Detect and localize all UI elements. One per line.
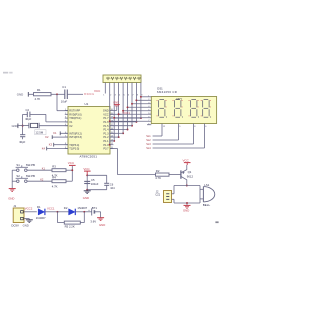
svg-text:C1: C1 xyxy=(62,85,66,89)
transistor Q1 9012 xyxy=(180,170,182,178)
svg-text:VCC: VCC xyxy=(94,89,101,93)
wire xyxy=(110,144,111,146)
wire xyxy=(110,136,119,138)
wire J2 pins xyxy=(172,193,175,195)
junction xyxy=(122,132,124,134)
svg-text:C2: C2 xyxy=(26,108,30,112)
junction xyxy=(135,121,137,123)
resistor network RP1 xyxy=(103,75,141,83)
svg-text:6: 6 xyxy=(128,94,130,96)
svg-text:100uF: 100uF xyxy=(91,182,99,186)
wire xyxy=(45,211,57,213)
svg-text:3.6V: 3.6V xyxy=(90,219,96,223)
svg-text:P1.0: P1.0 xyxy=(103,143,109,147)
svg-text:7: 7 xyxy=(132,94,134,96)
svg-text:VCC: VCC xyxy=(68,161,75,165)
svg-text:6: 6 xyxy=(205,126,207,128)
svg-text:P1.2: P1.2 xyxy=(103,135,109,139)
svg-text:K1: K1 xyxy=(42,167,46,171)
wire RP1 pin 2 bus xyxy=(109,83,111,145)
resistor R3 xyxy=(52,169,66,172)
display segment pin 7 xyxy=(110,120,152,122)
svg-text:10uF: 10uF xyxy=(61,100,68,104)
svg-text:9: 9 xyxy=(179,126,181,128)
pin 2 RXD(P3.0) xyxy=(65,113,68,115)
gnd rail for crystal xyxy=(22,114,24,134)
svg-text:J1: J1 xyxy=(13,204,16,208)
wire loop right xyxy=(199,186,201,204)
junction xyxy=(109,144,111,146)
svg-text:GND: GND xyxy=(8,196,14,200)
diode D1 1N4007 xyxy=(38,209,44,215)
svg-text:GND: GND xyxy=(17,92,23,96)
junction collector node xyxy=(186,185,188,187)
display segment pin 4 xyxy=(128,106,152,108)
svg-text:AT89C2051: AT89C2051 xyxy=(80,155,98,159)
corner mark xyxy=(215,221,218,223)
pin 5 X1 xyxy=(65,121,68,123)
junction xyxy=(83,211,85,213)
display segment pin 3 xyxy=(132,103,151,105)
pin 1 RST/VPP xyxy=(65,110,68,112)
wire xyxy=(24,211,37,213)
svg-text:S1: S1 xyxy=(16,163,20,167)
pin 12 P1.0 xyxy=(110,144,113,146)
wire X1 pin xyxy=(46,121,68,123)
display common pin 9 net SL2 xyxy=(178,124,180,141)
display common pin 6 net SL4 xyxy=(204,124,206,149)
wire xyxy=(110,117,141,119)
capacitor C1 xyxy=(64,90,66,100)
svg-text:SL1: SL1 xyxy=(146,135,151,138)
svg-text:2: 2 xyxy=(110,94,112,96)
crystal value 12.5M xyxy=(35,130,46,135)
svg-text:12.5M: 12.5M xyxy=(35,131,43,135)
svg-text:SL4: SL4 xyxy=(146,147,151,150)
svg-text:K1: K1 xyxy=(53,131,57,135)
svg-text:GND: GND xyxy=(23,224,29,228)
svg-text:9: 9 xyxy=(141,94,143,96)
svg-text:P1.1: P1.1 xyxy=(103,139,109,143)
pin 7 INT1(P3.3) xyxy=(65,136,68,138)
svg-text:VCC1: VCC1 xyxy=(47,207,55,211)
svg-text:8: 8 xyxy=(194,126,196,128)
ground GND (battery) xyxy=(97,217,104,219)
svg-text:U1: U1 xyxy=(85,102,89,106)
svg-text:30pF: 30pF xyxy=(25,117,31,121)
svg-text:GND: GND xyxy=(183,208,189,212)
wire xyxy=(51,93,65,95)
junction xyxy=(122,110,124,112)
svg-text:K2: K2 xyxy=(40,178,44,182)
pin 13 P1.1 xyxy=(110,140,113,142)
display segment pin 2 xyxy=(136,99,151,101)
junction xyxy=(127,129,129,131)
resistor R1 xyxy=(34,93,52,96)
wire xyxy=(110,132,123,134)
wire RP1 pin 5 bus xyxy=(122,83,124,134)
pin 8 T0(P3.4) xyxy=(65,144,68,146)
junction xyxy=(113,140,115,142)
svg-text:12: 12 xyxy=(163,126,166,128)
display common pin 12 net SL1 xyxy=(161,124,163,137)
wire X2 pin xyxy=(39,125,68,127)
ground GND (switches) xyxy=(9,188,16,190)
svg-text:4.7K: 4.7K xyxy=(155,176,161,180)
ground GND (input) xyxy=(26,219,33,221)
svg-text:DC9V: DC9V xyxy=(11,224,19,228)
wire RP1 pin 4 bus xyxy=(118,83,120,138)
svg-text:5: 5 xyxy=(124,94,126,96)
svg-text:RXD(P3.0): RXD(P3.0) xyxy=(69,112,81,116)
svg-text:P1.7: P1.7 xyxy=(103,116,109,120)
svg-text:K2: K2 xyxy=(45,135,49,139)
wire VCC pin xyxy=(110,113,122,115)
svg-text:DPY: DPY xyxy=(177,97,183,101)
battery BT1 3.6V xyxy=(91,208,93,215)
svg-text:9012: 9012 xyxy=(187,174,194,178)
capacitor C6 104 xyxy=(104,182,109,184)
svg-text:P1.3: P1.3 xyxy=(103,131,109,135)
svg-text:P1.6: P1.6 xyxy=(103,120,109,124)
svg-text:C5: C5 xyxy=(91,178,95,182)
svg-text:GND: GND xyxy=(99,223,105,227)
junction xyxy=(118,113,120,115)
wire loop bottom xyxy=(174,202,200,204)
svg-text:SM41056 CR: SM41056 CR xyxy=(157,90,177,94)
svg-text:VCC: VCC xyxy=(103,112,109,116)
diode D2 1N4007 xyxy=(69,209,75,215)
svg-text:GND: GND xyxy=(12,124,18,128)
pin 17 P1.5 xyxy=(110,125,113,127)
pin 11 P3.7 xyxy=(110,148,113,150)
svg-text:4.7K: 4.7K xyxy=(35,97,41,101)
wire xyxy=(110,121,136,123)
pin 14 P1.2 xyxy=(110,136,113,138)
svg-text:4: 4 xyxy=(119,94,121,96)
junction xyxy=(131,103,133,105)
svg-text:P1.4: P1.4 xyxy=(103,128,109,132)
resistor R4 xyxy=(52,180,66,183)
display segment pin 9 xyxy=(114,117,151,119)
capacitor C2 xyxy=(23,113,27,115)
pin 19 P1.7 xyxy=(110,117,113,119)
wire RST pin xyxy=(57,110,68,112)
svg-text:8: 8 xyxy=(137,94,139,96)
wire VCC rail xyxy=(86,175,88,190)
svg-text:T0(P3.4): T0(P3.4) xyxy=(69,143,79,147)
svg-text:SW-PB: SW-PB xyxy=(26,163,35,167)
connector J2 (ext buzzer) xyxy=(164,191,172,203)
svg-text:T1(P3.5): T1(P3.5) xyxy=(69,147,79,151)
svg-text:TXD(P3.1): TXD(P3.1) xyxy=(69,116,81,120)
wire INT1 net K2 xyxy=(53,136,69,138)
wire J1 gnd xyxy=(24,218,29,220)
ground GND (buzzer) xyxy=(186,203,188,205)
junction xyxy=(118,136,120,138)
pin 10 GND xyxy=(110,110,113,112)
junction xyxy=(135,99,137,101)
wire RST down xyxy=(56,94,58,110)
svg-text:P1.5: P1.5 xyxy=(103,124,109,128)
svg-text:R4: R4 xyxy=(52,176,56,180)
svg-text:RST/VPP: RST/VPP xyxy=(69,109,80,113)
faint header text xyxy=(3,72,8,74)
wire xyxy=(58,211,69,213)
svg-text:BT1: BT1 xyxy=(92,206,98,210)
wire xyxy=(169,174,181,176)
junction xyxy=(131,125,133,127)
svg-text:VCC: VCC xyxy=(83,167,90,171)
svg-text:30pF: 30pF xyxy=(19,140,25,144)
svg-text:INT0(P3.2): INT0(P3.2) xyxy=(69,131,82,135)
svg-text:S2: S2 xyxy=(16,174,20,178)
junction xyxy=(127,106,129,108)
wire xyxy=(110,125,132,127)
svg-text:104: 104 xyxy=(110,186,115,190)
svg-text:R2: R2 xyxy=(156,169,160,173)
resistor R2 xyxy=(156,173,170,176)
svg-text:SL3: SL3 xyxy=(146,143,151,146)
junction xyxy=(57,211,59,213)
junction xyxy=(113,117,115,119)
svg-text:VCC1: VCC1 xyxy=(84,92,94,96)
wire xyxy=(29,93,34,95)
wire xyxy=(95,211,101,213)
pin 1 RP1 common VCC xyxy=(104,83,106,94)
svg-text:D1: D1 xyxy=(37,205,41,209)
svg-text:CZ1: CZ1 xyxy=(155,194,160,197)
pin 15 P1.3 xyxy=(110,132,113,134)
svg-text:SW-PB: SW-PB xyxy=(26,174,35,178)
display segment pin 6 xyxy=(147,124,151,126)
digit 1 seven-segment xyxy=(159,98,164,100)
wire INT0 net K1 xyxy=(61,132,69,134)
junction xyxy=(109,120,111,122)
ground GND (filter) xyxy=(84,190,91,192)
svg-text:VCC: VCC xyxy=(183,158,190,162)
svg-text:1: 1 xyxy=(103,94,105,96)
wire xyxy=(12,180,16,182)
pin 6 INT0(P3.2) xyxy=(65,132,68,134)
wire xyxy=(12,169,16,171)
resistor R5 (charge limit) xyxy=(57,212,59,223)
crystal Y1 xyxy=(23,125,29,127)
wire buzzer loop top xyxy=(174,185,200,187)
svg-text:GND: GND xyxy=(113,101,119,105)
svg-text:1N4007: 1N4007 xyxy=(36,216,46,220)
wire xyxy=(110,129,128,131)
junction xyxy=(140,117,142,119)
svg-text:VCC2: VCC2 xyxy=(25,207,33,211)
display segment pin 10 xyxy=(119,113,152,115)
capacitor C3 xyxy=(20,134,25,136)
svg-text:GND: GND xyxy=(103,109,109,113)
junction xyxy=(22,125,24,127)
pin 3 TXD(P3.1) xyxy=(65,117,68,119)
svg-text:4.7K: 4.7K xyxy=(52,184,58,188)
wire switches common xyxy=(11,170,13,188)
junction xyxy=(140,96,142,98)
wire loop to C6 xyxy=(87,174,107,176)
wire T0 net K3 xyxy=(54,144,68,146)
wire RP1 pin 8 bus xyxy=(135,83,137,122)
svg-text:BELL: BELL xyxy=(203,203,211,207)
svg-text:K3: K3 xyxy=(49,143,53,147)
svg-text:SL2: SL2 xyxy=(146,139,151,142)
digit 2 seven-segment xyxy=(175,98,180,100)
wire P3.7 to base resistor xyxy=(110,148,118,150)
pin 4 X2 xyxy=(65,125,68,127)
svg-text:R1: R1 xyxy=(37,88,41,92)
wire loop left upper xyxy=(173,186,175,194)
svg-text:R3: R3 xyxy=(52,165,56,169)
svg-text:K4: K4 xyxy=(42,146,46,150)
svg-text:P3.7: P3.7 xyxy=(103,147,109,151)
ground port GND (chip) xyxy=(116,106,118,111)
wire RP1 pin 7 bus xyxy=(131,83,133,126)
wire xyxy=(66,169,72,171)
capacitor C5 100uF xyxy=(84,180,90,182)
display segment pin 5 xyxy=(123,110,151,112)
svg-text:C6: C6 xyxy=(110,182,114,186)
svg-text:R5 2.2K: R5 2.2K xyxy=(65,224,75,228)
mcu U1 AT89C2051 xyxy=(68,107,110,155)
svg-text:3: 3 xyxy=(115,94,117,96)
wire C2 to X1 xyxy=(30,113,46,115)
svg-text:INT1(P3.3): INT1(P3.3) xyxy=(69,135,82,139)
svg-text:GND: GND xyxy=(83,196,89,200)
pin 18 P1.6 xyxy=(110,121,113,123)
wire T1 net K4 xyxy=(47,148,68,150)
wire RP1 pin 9 bus xyxy=(140,83,142,119)
wire RP1 pin 6 bus xyxy=(127,83,129,130)
svg-text:1N4007: 1N4007 xyxy=(77,206,87,210)
display segment pin 1 xyxy=(141,96,151,98)
digit 3 seven-segment xyxy=(191,98,196,100)
pin 20 VCC xyxy=(110,113,113,115)
wire RP1 pin 3 bus xyxy=(113,83,115,141)
junction RST node xyxy=(56,93,58,95)
pin 9 T1(P3.5) xyxy=(65,148,68,150)
digit 4 seven-segment xyxy=(204,98,209,100)
svg-text:D2: D2 xyxy=(64,206,68,210)
wire xyxy=(110,140,114,142)
display common pin 8 net SL3 xyxy=(193,124,195,145)
wire xyxy=(67,93,83,95)
wire pullup rail xyxy=(71,166,73,181)
wire loop left lower xyxy=(173,199,175,203)
wire xyxy=(66,180,72,182)
pin 16 P1.4 xyxy=(110,129,113,131)
